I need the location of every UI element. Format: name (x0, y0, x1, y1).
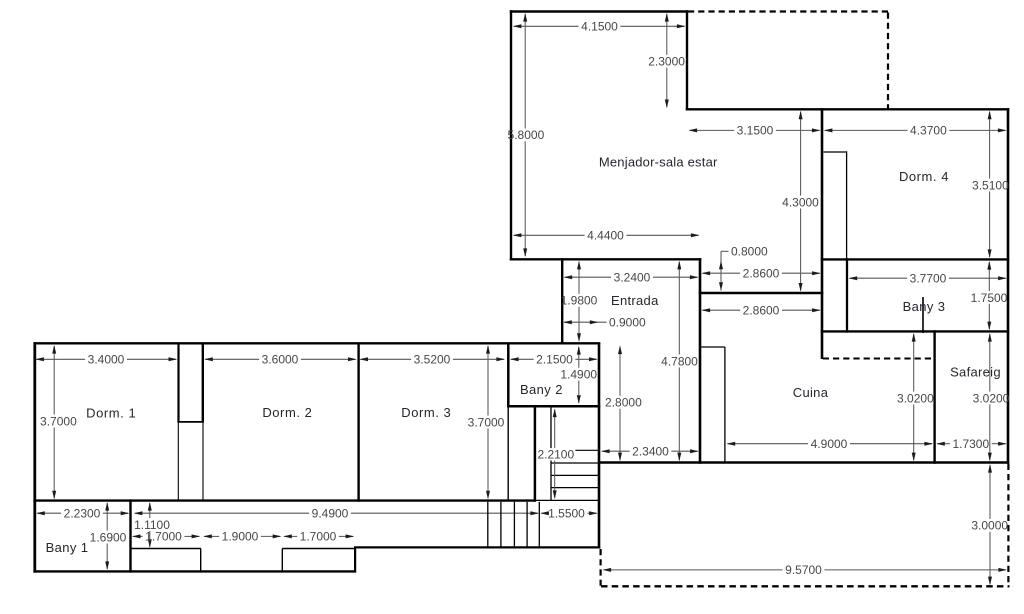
stair tread lower (487, 502, 489, 547)
svg-text:3.5100: 3.5100 (972, 178, 1009, 192)
dimension 2.8000 (619, 347, 621, 396)
svg-text:3.1500: 3.1500 (737, 124, 774, 138)
wall: bedrooms south (33, 499, 536, 501)
wall: central vertical (699, 258, 702, 464)
dimension 9.4900 (135, 512, 309, 514)
dimension 2.3400 (602, 450, 630, 452)
dimension 3.4000 (36, 358, 85, 360)
svg-text:Bany 2: Bany 2 (520, 382, 563, 397)
bath3 door line (922, 297, 924, 333)
wall: bath2 west (507, 344, 510, 408)
svg-text:Entrada: Entrada (611, 293, 659, 308)
stair tread lower (500, 502, 502, 547)
svg-text:Safareig: Safareig (950, 365, 1001, 380)
closet top bedroom4 (823, 151, 846, 153)
dimension 3.0000 (989, 465, 991, 519)
wall: entry west (561, 258, 563, 344)
dimension 1.9000 (204, 535, 219, 537)
svg-text:0.8000: 0.8000 (731, 245, 768, 259)
dimension 3.7000 (487, 346, 489, 416)
svg-text:2.1500: 2.1500 (536, 353, 573, 367)
closet bottom bedroom1 (177, 421, 204, 423)
dimension 9.5700 (604, 569, 783, 571)
dimension 3.0200 (989, 334, 991, 392)
dimension 4.3000 (800, 112, 802, 196)
svg-text:3.0200: 3.0200 (897, 391, 934, 405)
dimension 3.7700 (850, 277, 908, 279)
wall: bedroom2/3 divider (357, 344, 359, 502)
svg-text:4.4400: 4.4400 (587, 229, 624, 243)
thin line bedroom1/2 lower (202, 422, 204, 500)
svg-text:4.1500: 4.1500 (581, 20, 618, 34)
svg-text:3.7000: 3.7000 (468, 415, 505, 429)
svg-text:2.2100: 2.2100 (537, 448, 574, 462)
dashed porch north edge (688, 10, 889, 12)
dimension 4.3700 (825, 129, 908, 131)
svg-text:Dorm. 2: Dorm. 2 (262, 405, 312, 420)
dimension 0.9000 (564, 321, 607, 323)
svg-text:5.8000: 5.8000 (508, 128, 545, 142)
wall: bath3 west (846, 258, 848, 332)
stair tread lower (538, 502, 540, 547)
dashed porch east edge (887, 13, 889, 109)
dimension 1.9800 (578, 262, 580, 294)
svg-text:4.3000: 4.3000 (782, 195, 819, 209)
closet2 corridor left (281, 549, 283, 571)
closet1 corridor right (200, 549, 202, 571)
wall: bedrooms north (34, 342, 601, 344)
dimension 3.7000 (53, 346, 55, 415)
wall: bath3 south (821, 330, 1010, 332)
wall: south step (354, 547, 356, 572)
wall: bedroom4 west (821, 108, 824, 359)
svg-text:2.3400: 2.3400 (632, 445, 669, 459)
svg-text:1.5500: 1.5500 (548, 507, 585, 521)
dimension 1.7500 (988, 262, 990, 291)
dimension 2.8600 (703, 272, 741, 274)
svg-text:1.7500: 1.7500 (971, 291, 1008, 305)
svg-text:1.9800: 1.9800 (561, 294, 598, 308)
svg-text:4.9000: 4.9000 (811, 437, 848, 451)
dimension 3.0200 (913, 334, 915, 392)
wall: living room west (510, 10, 512, 260)
wall: stair west (534, 408, 537, 502)
stair tread lower (513, 502, 515, 547)
dimension 2.2300 (37, 512, 61, 514)
svg-text:0.9000: 0.9000 (609, 316, 646, 330)
closet line bedroom4 (846, 151, 848, 258)
svg-text:3.2400: 3.2400 (614, 271, 651, 285)
svg-text:2.8600: 2.8600 (743, 304, 780, 318)
stair tread (552, 487, 599, 489)
dashed kitchen line (823, 358, 931, 360)
wall: bedroom1/2 divider (202, 344, 204, 422)
svg-text:3.7700: 3.7700 (910, 272, 947, 286)
wall: north wall right block (686, 108, 1009, 110)
hall line below bath2 (507, 408, 509, 501)
wall: bath2 south (507, 405, 600, 408)
dimension 1.7000 (133, 535, 143, 537)
kitchen partition top (701, 346, 725, 348)
dimension 2.3000 (666, 14, 668, 55)
wall: south wall kitchen/laundry (598, 461, 1009, 464)
stair tread lower (526, 502, 528, 547)
svg-text:3.7000: 3.7000 (40, 414, 77, 428)
svg-text:3.6000: 3.6000 (262, 353, 299, 367)
wall: living room north (510, 10, 688, 12)
svg-text:2.2300: 2.2300 (64, 507, 101, 521)
dimension 1.4900 (578, 347, 580, 368)
kitchen partition east (724, 347, 726, 462)
dimension 2.1500 (511, 358, 534, 360)
wall: bath1 east (129, 499, 131, 572)
svg-text:Bany 1: Bany 1 (46, 540, 89, 555)
svg-text:Dorm. 4: Dorm. 4 (899, 169, 949, 184)
svg-text:Cuina: Cuina (793, 385, 829, 400)
svg-text:3.0200: 3.0200 (973, 391, 1010, 405)
wall: south outer left (33, 570, 356, 572)
dimension 1.1100 (149, 503, 151, 518)
svg-text:2.8600: 2.8600 (743, 267, 780, 281)
stair tread (552, 462, 599, 464)
svg-text:1.4900: 1.4900 (560, 368, 597, 382)
wall: stair east (598, 343, 601, 549)
wall: bedroom4 / bath3 divider (821, 258, 1010, 260)
svg-text:2.3000: 2.3000 (648, 55, 685, 69)
svg-text:Dorm. 1: Dorm. 1 (86, 406, 136, 421)
dimension 3.2400 (565, 276, 612, 278)
dimension 4.4400 (514, 234, 585, 236)
dimension 3.6000 (205, 358, 259, 360)
dimension 3.1500 (690, 129, 735, 131)
svg-text:9.4900: 9.4900 (312, 507, 349, 521)
svg-text:1.7300: 1.7300 (952, 437, 989, 451)
svg-text:1.9000: 1.9000 (222, 530, 259, 544)
svg-text:Menjador-sala estar: Menjador-sala estar (599, 154, 718, 169)
wall: laundry west (933, 330, 935, 464)
dimension 4.7800 (678, 262, 680, 355)
svg-text:9.5700: 9.5700 (785, 563, 822, 577)
stair landing edge (536, 499, 600, 501)
wall: east outer (1007, 108, 1010, 464)
wall: living room northeast vertical (686, 10, 688, 110)
dimension 4.1500 (514, 25, 579, 27)
svg-text:1.1100: 1.1100 (134, 518, 170, 532)
closet2 corridor top (282, 548, 355, 550)
svg-text:3.4000: 3.4000 (88, 353, 125, 367)
closet1 corridor top (131, 548, 201, 550)
stair tread (552, 474, 599, 476)
wall: west outer (33, 342, 36, 572)
dimension 1.5500 (541, 512, 545, 514)
wall: south corridor (354, 546, 600, 548)
dimension 3.5100 (989, 112, 991, 179)
dashed terrace east (1007, 464, 1009, 587)
dimension 1.7000 (284, 535, 297, 537)
dimension 5.8000 (524, 14, 526, 129)
svg-text:1.6900: 1.6900 (90, 530, 127, 544)
wall: kitchen north (699, 292, 824, 294)
svg-text:2.8000: 2.8000 (605, 396, 642, 410)
thin line below bedroom1 closet (177, 422, 179, 500)
dashed terrace west (599, 549, 601, 586)
svg-text:1.7000: 1.7000 (300, 530, 337, 544)
stair side line (550, 408, 552, 501)
svg-text:3.0000: 3.0000 (971, 519, 1008, 533)
dimension 2.8600 (703, 309, 741, 311)
dimension 4.9000 (728, 443, 809, 445)
dimension 1.7300 (937, 443, 950, 445)
svg-text:3.5200: 3.5200 (414, 353, 451, 367)
dimension 3.5200 (360, 358, 411, 360)
dimension 1.6900 (106, 503, 108, 531)
dimension 2.2100 (554, 410, 556, 448)
wall: bedroom1 closet west (177, 344, 179, 422)
svg-text:4.7800: 4.7800 (661, 354, 698, 368)
dimension 0.8000 (720, 251, 722, 290)
svg-text:Bany 3: Bany 3 (903, 299, 946, 314)
svg-text:4.3700: 4.3700 (910, 124, 947, 138)
dashed terrace south (601, 585, 1010, 587)
svg-text:Dorm. 3: Dorm. 3 (401, 405, 451, 420)
stair tread (552, 449, 599, 451)
wall: living room south / entry north (510, 258, 702, 260)
